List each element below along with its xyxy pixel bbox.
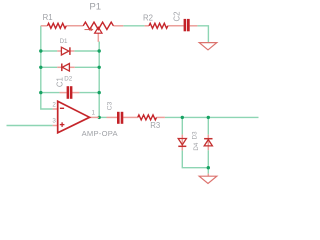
wire left feedback vertical — [41, 26, 53, 109]
pin op-amp 1 output — [90, 116, 100, 118]
pin C1 left — [60, 92, 67, 94]
svg-text:R2: R2 — [143, 13, 153, 22]
pin C2 right — [190, 25, 198, 27]
diode D3 — [178, 139, 186, 147]
pin C3-R3 — [123, 116, 138, 118]
capacitor C2 — [184, 19, 190, 31]
potentiometer P1 adjust arrow — [85, 28, 93, 31]
pin C3 left — [107, 116, 118, 118]
pin P1 right — [113, 25, 123, 27]
pin D4 through — [207, 135, 209, 151]
svg-text:3: 3 — [52, 117, 56, 124]
wire P1 to R2 — [123, 25, 144, 27]
pin D1 left — [57, 50, 61, 52]
op-amp U1 triangle — [58, 101, 90, 133]
svg-text:C3: C3 — [107, 101, 114, 110]
ground lower — [199, 176, 217, 183]
wire D2 row left — [41, 66, 57, 68]
svg-text:C2: C2 — [172, 12, 181, 22]
pin R2-C2 — [168, 25, 184, 27]
wire D3 branch lower — [182, 150, 208, 167]
wire D4 branch upper — [207, 117, 209, 134]
wire C1 row right — [79, 92, 99, 94]
pin C1 right — [72, 92, 79, 94]
pin R2 left — [145, 25, 149, 27]
resistor R3 — [138, 115, 157, 120]
svg-text:D4: D4 — [193, 142, 200, 150]
pin R1 left — [41, 25, 48, 27]
capacitor C3 — [117, 112, 123, 124]
svg-text:AMP-OPA: AMP-OPA — [82, 129, 119, 138]
resistor R1 — [47, 23, 66, 28]
pin R1-P1 — [66, 25, 83, 27]
pin D1 right — [70, 50, 74, 52]
diode D2 — [62, 64, 70, 72]
wire D4 branch lower — [207, 150, 209, 173]
pin D2 right — [70, 66, 75, 68]
diode D1 — [61, 47, 70, 55]
pin op-amp 3 — [53, 125, 58, 127]
svg-text:D2: D2 — [64, 75, 72, 82]
svg-text:R3: R3 — [150, 121, 160, 130]
pin op-amp 2 — [53, 108, 58, 110]
capacitor C1 — [67, 86, 73, 99]
potentiometer P1 zigzag — [83, 22, 113, 29]
pin D2 left — [57, 66, 61, 68]
wire D1 row left — [41, 50, 57, 52]
svg-text:D1: D1 — [60, 38, 68, 45]
potentiometer P1 wiper triangle — [95, 27, 102, 33]
svg-text:R1: R1 — [43, 13, 53, 22]
svg-text:2: 2 — [52, 102, 56, 109]
diode D4 — [204, 139, 212, 146]
ground upper — [199, 43, 217, 50]
pin lower ground stub — [207, 174, 209, 177]
wire op-amp input 3 — [7, 125, 53, 127]
op-amp minus — [60, 107, 64, 109]
wire right ladder vertical — [98, 42, 100, 118]
pin P1 wiper stem — [97, 33, 99, 42]
pin leads (red) — [41, 26, 209, 177]
svg-text:C1: C1 — [55, 77, 64, 87]
op-amp plus — [60, 122, 65, 127]
pin R3 right — [157, 116, 165, 118]
wire C2 to ground — [197, 26, 208, 43]
svg-text:1: 1 — [92, 110, 96, 117]
wire P1 wiper net — [98, 42, 100, 45]
wire D1 row right — [74, 50, 99, 52]
svg-text:P1: P1 — [89, 1, 101, 12]
pin D3 through — [181, 135, 183, 151]
resistor R2 — [149, 23, 168, 28]
wire output to C3 — [99, 116, 106, 118]
wire C1 row left — [41, 92, 60, 94]
wire R3 to right edge — [165, 116, 259, 118]
wire D3 branch upper — [181, 117, 183, 134]
wire D2 row right — [75, 66, 100, 68]
svg-text:D3: D3 — [192, 131, 199, 139]
